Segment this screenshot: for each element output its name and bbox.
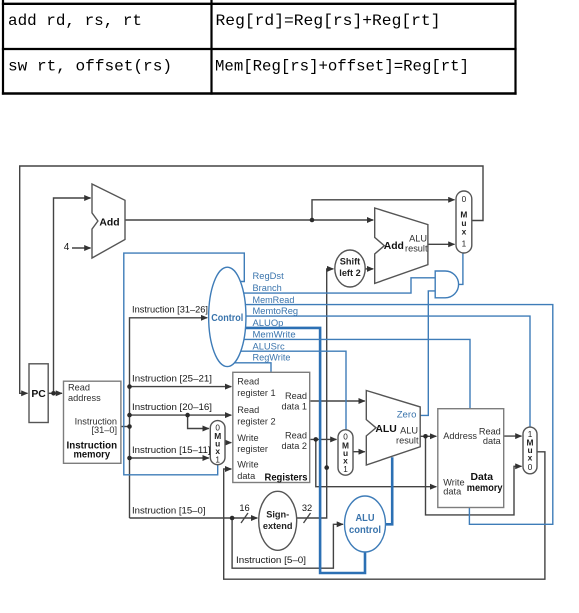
svg-text:1: 1 — [215, 455, 220, 464]
svg-text:x: x — [343, 455, 348, 465]
wire MemWrite control to data memory — [244, 339, 470, 408]
wire RegDst mux output to Write register — [225, 442, 231, 444]
svg-text:register: register — [237, 444, 268, 454]
svg-text:Instruction [25–21]: Instruction [25–21] — [132, 373, 212, 383]
svg-text:Instruction [15–11]: Instruction [15–11] — [132, 445, 211, 455]
junction PC output — [51, 391, 56, 396]
svg-text:Write: Write — [237, 460, 258, 470]
svg-text:Instruction [20–16]: Instruction [20–16] — [132, 402, 212, 412]
junction bus Instruction[25-21] — [127, 384, 132, 389]
wire RegDst control to write register mux select — [124, 253, 245, 475]
svg-text:Shift: Shift — [340, 257, 360, 267]
junction sign extend riser mux branch — [324, 465, 329, 470]
adder branch target — [375, 208, 428, 283]
svg-text:[31–0]: [31–0] — [91, 425, 117, 435]
wire Instruction[20-16] to Read register 2 — [130, 414, 232, 416]
svg-text:Branch: Branch — [253, 283, 282, 294]
svg-text:ALUOp: ALUOp — [253, 318, 284, 329]
wire instruction bus riser and Instruction[31-26] into Control — [130, 318, 208, 518]
adder PC+4 — [92, 184, 125, 258]
wire AND gate output to PCSrc mux select — [459, 253, 463, 284]
svg-text:Data: Data — [470, 472, 493, 483]
svg-text:Zero: Zero — [397, 409, 417, 420]
instruction memory — [64, 381, 121, 463]
wire Branch control to AND gate — [244, 278, 436, 293]
svg-text:x: x — [462, 227, 467, 237]
svg-text:RegWrite: RegWrite — [253, 352, 291, 363]
main ALU — [366, 391, 420, 466]
svg-text:memory: memory — [74, 449, 111, 460]
svg-text:PC: PC — [31, 389, 46, 400]
wire constant 4 into Add — [72, 247, 91, 249]
wire Instruction[15-11] to RegDst mux input 1 — [130, 457, 209, 459]
svg-text:extend: extend — [263, 521, 293, 531]
wire ALUSrc mux output to ALU — [353, 451, 365, 453]
svg-text:Control: Control — [211, 313, 243, 324]
svg-text:Add: Add — [99, 217, 119, 228]
junction bus instruction output — [127, 424, 132, 429]
svg-text:Mem[Reg[rs]+offset]=Reg[rt]: Mem[Reg[rs]+offset]=Reg[rt] — [215, 58, 469, 76]
mux MemtoReg — [523, 427, 537, 474]
wire Instruction[5-0] to ALU control — [232, 518, 343, 568]
wire instruction memory output to bus — [121, 426, 130, 428]
svg-text:ALUSrc: ALUSrc — [253, 341, 285, 352]
wire Read data 2 branch to data memory write data — [316, 439, 437, 486]
junction bus Instruction[20-16] — [127, 413, 132, 418]
PC register — [29, 364, 48, 423]
registers block — [233, 372, 310, 482]
wire PCSrc mux output feedback to PC — [20, 166, 483, 393]
wire MemtoReg mux output write-back to register write data — [224, 452, 545, 579]
svg-text:Instruction [5–0]: Instruction [5–0] — [236, 555, 306, 565]
svg-text:data: data — [237, 471, 256, 481]
svg-text:16: 16 — [239, 503, 249, 513]
junction Read data 2 — [314, 437, 319, 442]
svg-text:Read: Read — [237, 377, 259, 387]
junction 20-16 branch — [185, 413, 190, 418]
data memory — [438, 409, 504, 508]
svg-text:Write: Write — [237, 433, 258, 443]
wire ALU result branch to MemtoReg mux input 0 — [426, 436, 522, 515]
svg-text:Read: Read — [68, 383, 90, 393]
svg-text:x: x — [528, 453, 533, 463]
slash 16 — [241, 513, 248, 523]
svg-text:sw rt, offset(rs): sw rt, offset(rs) — [8, 58, 172, 76]
wire Instruction[20-16] branch to RegDst mux input 0 — [188, 415, 209, 428]
svg-text:address: address — [68, 393, 101, 403]
control unit — [209, 267, 246, 366]
wire branch adder result to PCSrc mux input 1 — [428, 243, 455, 245]
table border right — [514, 0, 516, 95]
wire Read data 2 to ALUSrc mux input 0 — [311, 438, 337, 440]
ALU control unit — [345, 496, 386, 552]
svg-text:Read: Read — [237, 405, 259, 415]
wire shift left 2 output to branch adder — [365, 268, 373, 270]
svg-text:ALU: ALU — [409, 233, 427, 243]
svg-text:ALU: ALU — [400, 425, 418, 435]
svg-text:Read: Read — [285, 391, 307, 401]
wire PC+4 branch up to PCSrc mux input 0 — [312, 200, 455, 220]
shift left 2 unit — [335, 250, 365, 287]
svg-text:Address: Address — [443, 431, 477, 441]
svg-text:data: data — [443, 487, 462, 497]
svg-text:ALU: ALU — [375, 424, 396, 435]
table border left — [2, 0, 4, 95]
svg-text:0: 0 — [462, 195, 467, 204]
svg-text:register 2: register 2 — [237, 416, 275, 426]
wire MemRead control to data memory — [245, 305, 552, 525]
svg-text:MemtoReg: MemtoReg — [253, 306, 299, 317]
wire ALU result to data memory address — [420, 435, 436, 437]
AND gate branch — [435, 271, 458, 298]
svg-text:result: result — [405, 244, 428, 254]
svg-text:Read: Read — [285, 430, 307, 440]
svg-text:result: result — [396, 436, 419, 446]
svg-text:MemRead: MemRead — [253, 295, 295, 306]
svg-text:Reg[rd]=Reg[rs]+Reg[rt]: Reg[rd]=Reg[rs]+Reg[rt] — [216, 12, 441, 30]
wire data memory read data to MemtoReg mux input 1 — [504, 435, 522, 437]
table border bottom — [2, 92, 517, 94]
junction ALU result — [423, 434, 428, 439]
svg-text:0: 0 — [528, 463, 533, 472]
svg-text:data 1: data 1 — [281, 402, 307, 412]
svg-text:4: 4 — [64, 242, 70, 253]
mux RegDst — [210, 421, 225, 465]
svg-text:1: 1 — [462, 240, 467, 249]
svg-text:memory: memory — [467, 483, 503, 494]
wire sign extend output riser to shift left 2 — [297, 269, 334, 518]
svg-text:register 1: register 1 — [237, 388, 275, 398]
junction Instruction[15-0] split — [230, 516, 235, 521]
wire Instruction[25-21] to Read register 1 — [130, 386, 232, 388]
wire PC output to instruction memory read address — [48, 392, 62, 394]
wire Instruction[15-0] to sign extend — [130, 517, 258, 519]
wire Read data 1 to ALU — [311, 400, 365, 402]
svg-text:left 2: left 2 — [339, 268, 360, 278]
svg-text:add rd, rs, rt: add rd, rs, rt — [8, 12, 142, 30]
svg-text:32: 32 — [302, 503, 312, 513]
svg-text:data 2: data 2 — [281, 441, 307, 451]
wire RegWrite control to registers — [234, 363, 271, 373]
svg-text:Instruction [15–0]: Instruction [15–0] — [132, 506, 206, 516]
wire PC+4 Add output to branch adder — [125, 219, 373, 221]
table border top — [2, 3, 517, 5]
wire ALUSrc control to mux select — [241, 351, 346, 430]
sign extend unit — [259, 491, 297, 550]
svg-text:ALU: ALU — [356, 513, 375, 524]
junction PC+4 line — [310, 218, 315, 223]
svg-text:Registers: Registers — [265, 472, 308, 483]
wire PC output riser to Add — [54, 198, 91, 393]
table row divider — [2, 48, 517, 50]
svg-text:RegDst: RegDst — [253, 271, 285, 282]
wire ALUOp control to ALU control unit — [246, 328, 366, 573]
mux PCSrc — [456, 191, 472, 253]
svg-text:MemWrite: MemWrite — [253, 330, 296, 341]
junction bus Instruction[15-11] — [127, 456, 132, 461]
wire Zero flag to AND gate — [420, 291, 435, 416]
svg-text:Instruction [31–26]: Instruction [31–26] — [132, 305, 208, 315]
svg-text:1: 1 — [343, 465, 348, 474]
wire ALU control output to ALU — [386, 457, 393, 524]
svg-text:Sign-: Sign- — [266, 510, 289, 520]
mux ALUSrc — [338, 430, 353, 475]
svg-text:data: data — [483, 436, 502, 446]
slash 32 — [304, 513, 311, 523]
svg-text:Add: Add — [384, 241, 404, 252]
svg-text:control: control — [349, 525, 381, 536]
table border column divider — [210, 0, 212, 95]
wire MemtoReg control to mux select — [246, 316, 530, 427]
